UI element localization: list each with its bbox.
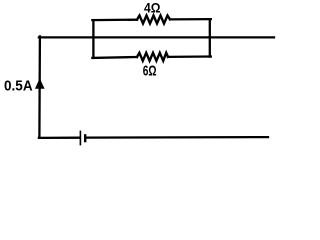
svg-text:0.5A: 0.5A — [4, 79, 33, 95]
svg-text:4Ω: 4Ω — [144, 0, 160, 16]
svg-text:6Ω: 6Ω — [143, 62, 157, 79]
